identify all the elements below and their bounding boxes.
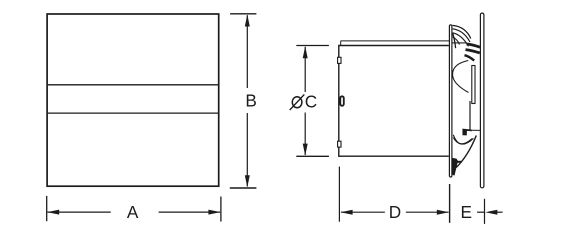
svg-text:B: B [245,91,256,111]
svg-text:A: A [127,202,139,222]
svg-text:D: D [389,202,401,222]
svg-text:E: E [460,202,471,222]
svg-text:C: C [305,92,317,112]
